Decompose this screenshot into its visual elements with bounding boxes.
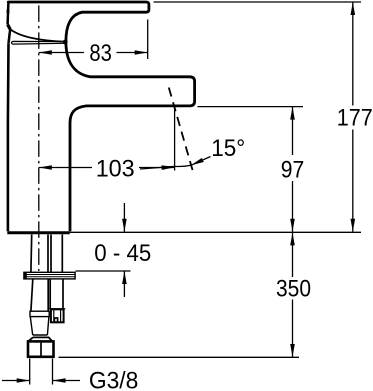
body top rim lens: [11, 41, 64, 44]
junction blob: [63, 40, 68, 45]
handle-end extension line: [147, 20, 149, 60]
dimension 83: [39, 52, 148, 54]
plate extension line: [76, 270, 131, 272]
nut top chamfer: [28, 337, 52, 341]
body bottom thick bar: [7, 231, 70, 234]
lever handle blade (top bar): [8, 2, 149, 12]
supply tube left edge / right edge (above plate): [31, 235, 48, 273]
dimension 97: [292, 107, 294, 232]
svg-text:83: 83: [89, 40, 112, 67]
svg-text:97: 97: [281, 156, 305, 183]
supply tube (below plate): [31, 279, 48, 311]
15-degree arc with arrows: [140, 166, 175, 169]
dimension 177: [352, 2, 354, 232]
mounting rod (above plate): [51, 235, 62, 273]
lever underside sag curve: [10, 29, 64, 41]
15-degree tilted dashed axis: [169, 88, 193, 171]
spout outlet extension line: [198, 106, 304, 108]
hose fitting block: [48, 308, 65, 310]
svg-text:350: 350: [276, 276, 311, 303]
flare collar: [30, 311, 49, 316]
G3/8 extension lines: [30, 359, 53, 385]
svg-text:15°: 15°: [211, 135, 245, 162]
hose rod (below plate): [50, 279, 63, 309]
dimension G3/8: [2, 380, 80, 382]
svg-text:G3/8: G3/8: [89, 367, 139, 391]
svg-text:0 - 45: 0 - 45: [94, 240, 151, 267]
top extension line: [154, 1, 362, 3]
dimension 103: [39, 167, 175, 169]
centerline (dash-dot): [38, 5, 40, 271]
svg-text:103: 103: [96, 156, 135, 183]
bottom reference line: [59, 356, 300, 358]
svg-text:177: 177: [337, 105, 373, 132]
body left edge: [7, 43, 10, 231]
lever handle front face (left end): [6, 2, 9, 25]
dimension 350: [292, 232, 294, 357]
deck extension line: [70, 231, 361, 233]
tail taper: [30, 317, 49, 335]
dimension 0-45: [123, 203, 125, 297]
body C-cut arc, spout outline, inner corner, body right edge: [66, 12, 195, 231]
washer plate: [24, 272, 75, 279]
hex nut G3/8: [28, 341, 54, 356]
15-degree vertical reference line: [174, 106, 176, 171]
